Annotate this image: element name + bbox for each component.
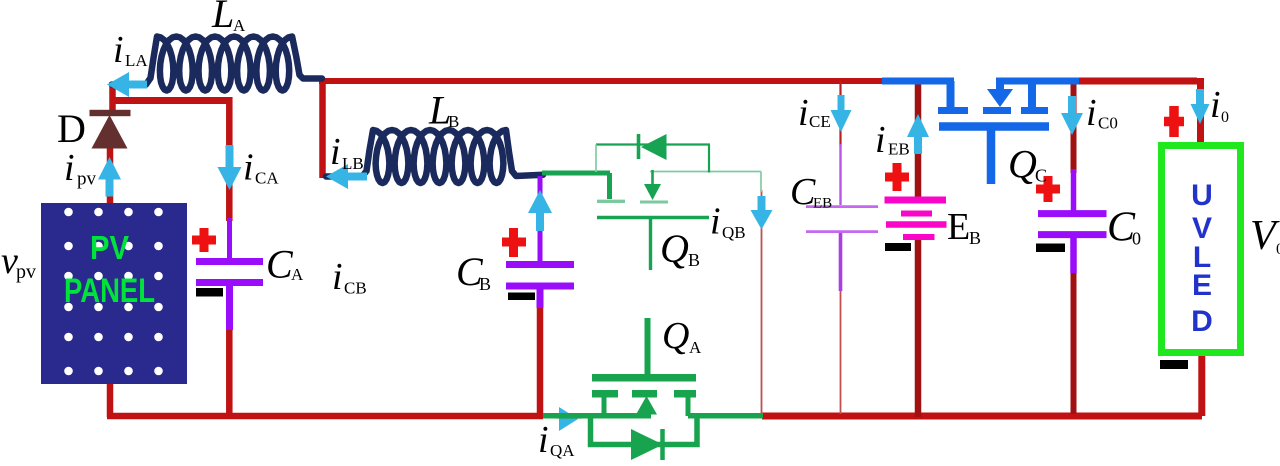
svg-text:C: C	[1035, 166, 1047, 186]
svg-text:EB: EB	[888, 140, 910, 159]
wire CA bottom lead red	[226, 328, 233, 417]
capacitor C0	[1038, 169, 1107, 273]
svg-text:D: D	[1191, 305, 1213, 338]
svg-text:Q: Q	[1008, 142, 1037, 187]
inductor LB	[326, 130, 543, 183]
svg-text:B: B	[969, 228, 981, 248]
svg-text:i: i	[243, 147, 254, 189]
svg-text:U: U	[1191, 179, 1213, 212]
capacitor CEB	[806, 144, 878, 291]
wire C0 bottom lead red	[1071, 271, 1077, 414]
svg-text:PV: PV	[90, 229, 129, 266]
wire PV top lead	[107, 148, 114, 204]
capacitor CA	[196, 218, 263, 330]
svg-text:i: i	[64, 147, 75, 189]
svg-text:B: B	[479, 274, 491, 294]
diode D	[90, 110, 131, 149]
arrow iC0	[1061, 96, 1083, 135]
svg-text:pv: pv	[77, 169, 97, 190]
minus C0	[1036, 244, 1065, 253]
battery EB	[885, 200, 947, 237]
capacitor CB	[506, 176, 574, 308]
wire CEB top lead thin red	[839, 81, 841, 146]
arrow iEB	[907, 114, 929, 154]
arrow iQB	[751, 196, 773, 230]
wire EB bottom lead	[915, 240, 922, 417]
wire EB top lead	[915, 81, 922, 197]
svg-text:0: 0	[1221, 109, 1229, 126]
wire node A horizontal	[110, 97, 229, 104]
wire LB branch vertical	[319, 81, 326, 178]
wire bottom rail left	[107, 413, 543, 420]
svg-text:E: E	[947, 206, 970, 248]
UV LED box	[1162, 146, 1241, 353]
arrow iCE	[831, 95, 852, 132]
svg-text:QB: QB	[722, 223, 746, 242]
wire CEB bottom lead thin red	[840, 289, 842, 414]
wire C0 top lead red	[1071, 81, 1077, 173]
svg-text:i: i	[332, 256, 343, 298]
svg-text:i: i	[330, 131, 341, 173]
arrow iQA	[556, 407, 582, 431]
svg-text:i: i	[1210, 84, 1221, 126]
mosfet QC	[882, 78, 1079, 184]
svg-text:C: C	[266, 242, 294, 287]
svg-text:i: i	[1086, 92, 1097, 134]
svg-text:QA: QA	[550, 441, 575, 460]
svg-text:CE: CE	[809, 112, 831, 131]
svg-text:i: i	[710, 201, 721, 243]
svg-text:0: 0	[1132, 229, 1141, 249]
svg-text:A: A	[233, 16, 246, 35]
svg-text:CA: CA	[255, 169, 279, 188]
svg-text:B: B	[688, 250, 700, 270]
inductor LA	[112, 37, 322, 91]
arrow ipv	[98, 157, 121, 197]
svg-text:B: B	[448, 112, 459, 131]
svg-text:C0: C0	[1098, 114, 1118, 133]
svg-text:Q: Q	[662, 315, 689, 357]
minus EB	[885, 243, 911, 251]
svg-text:i: i	[538, 419, 549, 461]
wire top rail red left	[319, 78, 884, 84]
arrow iLB	[326, 164, 367, 189]
wire top rail red right	[1079, 78, 1201, 144]
svg-text:LB: LB	[342, 154, 364, 173]
minus LED	[1160, 360, 1188, 369]
arrow iCB up	[528, 190, 552, 231]
svg-text:i: i	[875, 119, 886, 161]
svg-text:i: i	[798, 92, 809, 134]
plus CA	[192, 228, 216, 252]
plus EB	[885, 163, 909, 191]
wire PV bottom lead	[107, 382, 114, 417]
plus CB	[502, 228, 526, 257]
svg-text:D: D	[57, 106, 86, 151]
wire node A vertical to diode	[109, 82, 116, 111]
minus CB	[508, 293, 535, 301]
PV panel	[41, 203, 187, 384]
arrow i0	[1191, 89, 1210, 124]
svg-text:E: E	[1192, 269, 1212, 302]
arrow iCA	[218, 145, 242, 190]
svg-text:CB: CB	[344, 279, 367, 298]
svg-text:PANEL: PANEL	[64, 272, 155, 310]
plus LED	[1164, 106, 1184, 137]
plus C0	[1036, 176, 1060, 202]
svg-text:A: A	[689, 338, 702, 357]
svg-text:i: i	[113, 29, 124, 71]
mosfet QB	[542, 134, 761, 270]
svg-text:EB: EB	[813, 196, 832, 212]
wire QB drain thin red	[761, 190, 763, 414]
wire CB bottom lead red	[537, 306, 544, 416]
wire bottom rail right	[762, 352, 1202, 416]
svg-text:pv: pv	[16, 261, 36, 283]
svg-text:Q: Q	[660, 226, 689, 271]
wire CA branch down	[226, 97, 233, 221]
svg-text:0: 0	[1276, 241, 1280, 258]
minus CA	[196, 288, 223, 297]
svg-text:A: A	[291, 265, 304, 284]
mosfet QA	[543, 318, 763, 460]
arrow iLA	[107, 72, 147, 97]
svg-text:L: L	[211, 0, 234, 36]
svg-text:LA: LA	[125, 51, 148, 70]
